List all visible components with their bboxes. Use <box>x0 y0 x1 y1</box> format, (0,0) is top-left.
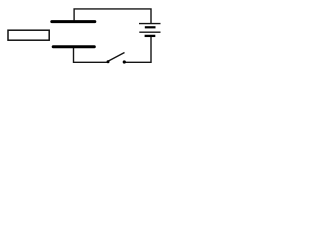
battery B1 long plate 2 <box>139 31 160 33</box>
switch S1 pivot dot <box>107 60 110 63</box>
dielectric slab (rectangle at left) <box>8 30 49 40</box>
battery B1 short plate 1 <box>145 26 156 28</box>
switch S1 right contact dot <box>123 60 126 63</box>
capacitor C1 top plate <box>52 20 95 23</box>
wire from battery down right side <box>126 37 152 62</box>
switch S1 lever (open) <box>108 53 125 62</box>
capacitor C1 bottom plate <box>53 45 94 48</box>
wire from top plate up <box>74 9 151 24</box>
battery B1 long plate 1 <box>139 23 161 25</box>
battery B1 short plate 2 <box>145 35 156 37</box>
wire from switch pivot left to capacitor bottom lead <box>74 48 108 63</box>
